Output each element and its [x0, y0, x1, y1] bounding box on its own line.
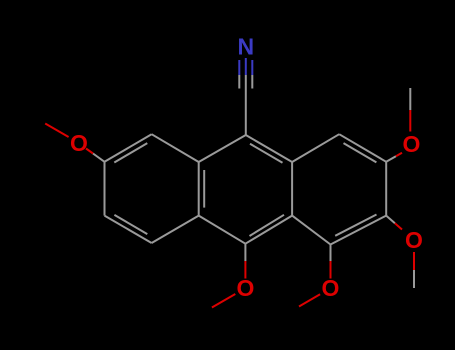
bond Obr-CH3 red half: [299, 294, 320, 306]
central ring double bond inner C9-UR: [250, 144, 283, 163]
triple bond C#N line2 blue: [245, 58, 247, 75]
bond URR-Or1 gray half: [386, 156, 396, 162]
triple bond C#N line1 blue: [238, 60, 240, 75]
bond BotR-Obr gray half: [330, 245, 332, 262]
svg-text:O: O: [403, 131, 421, 157]
bond BotR-Obr red half: [330, 261, 332, 279]
left ring edge BotL-LL: [152, 216, 199, 243]
bond Obl-CH3 red half: [212, 294, 235, 308]
svg-text:N: N: [237, 33, 254, 59]
central ring fusion double inner UL-LL: [203, 170, 205, 208]
central ring edge LR-C10: [245, 216, 292, 244]
bond Or2-CH3 gray half: [413, 270, 415, 288]
left ring double bond inner TopL-ULL: [114, 143, 147, 162]
left ring edge UL-TopL: [152, 134, 199, 162]
triple bond C#N line1 gray: [238, 75, 240, 89]
left ring edge LLL-BotL: [105, 216, 152, 243]
svg-text:O: O: [405, 227, 423, 253]
bond ULL-Oleft red half: [86, 149, 93, 154]
central ring fusion edge UR-LR: [291, 162, 293, 216]
bond Or2-CH3 red half: [413, 252, 415, 270]
central ring edge C9-UR: [246, 135, 292, 162]
triple bond C#N line3 blue: [251, 60, 253, 75]
triple bond C#N line3 gray: [251, 75, 253, 89]
right ring double bond inner TopR-URR: [344, 143, 377, 162]
right ring edge LRR-BotR: [331, 216, 387, 245]
right ring double bond inner LRR-BotR: [335, 215, 376, 236]
bond URR-Or1 red half: [396, 153, 402, 157]
central ring edge C9-UL: [199, 135, 246, 162]
bond C10-Obl gray half: [244, 244, 246, 261]
right ring edge URR-LRR: [385, 162, 387, 216]
right ring edge BotR-LR: [292, 216, 330, 245]
svg-text:O: O: [322, 275, 340, 301]
svg-text:O: O: [70, 130, 88, 156]
right ring edge UR-TopR: [292, 134, 339, 162]
svg-text:O: O: [236, 275, 254, 301]
central ring edge LL-C10: [199, 216, 246, 244]
left ring double bond inner LLL-BotL: [114, 215, 147, 234]
left ring edge TopL-ULL: [105, 134, 152, 162]
bond ULL-Oleft gray half: [93, 154, 105, 162]
bond LRR-Or2 gray half: [386, 216, 395, 224]
bond Or1-CH3 red half: [409, 110, 411, 132]
bond C10-Obl red half: [244, 261, 246, 279]
right ring edge TopR-URR: [339, 134, 386, 162]
bond LRR-Or2 red half: [395, 223, 402, 229]
bond Oleft-CH3 red half: [45, 124, 68, 138]
central ring double bond inner LR-C10: [250, 215, 285, 236]
bond Or1-CH3 gray half: [409, 88, 411, 110]
single bond nitrileC-C9: [245, 91, 247, 135]
left ring edge ULL-LLL: [104, 162, 106, 216]
triple bond C#N line2 gray: [245, 75, 247, 91]
central ring fusion edge UL-LL: [198, 162, 200, 216]
